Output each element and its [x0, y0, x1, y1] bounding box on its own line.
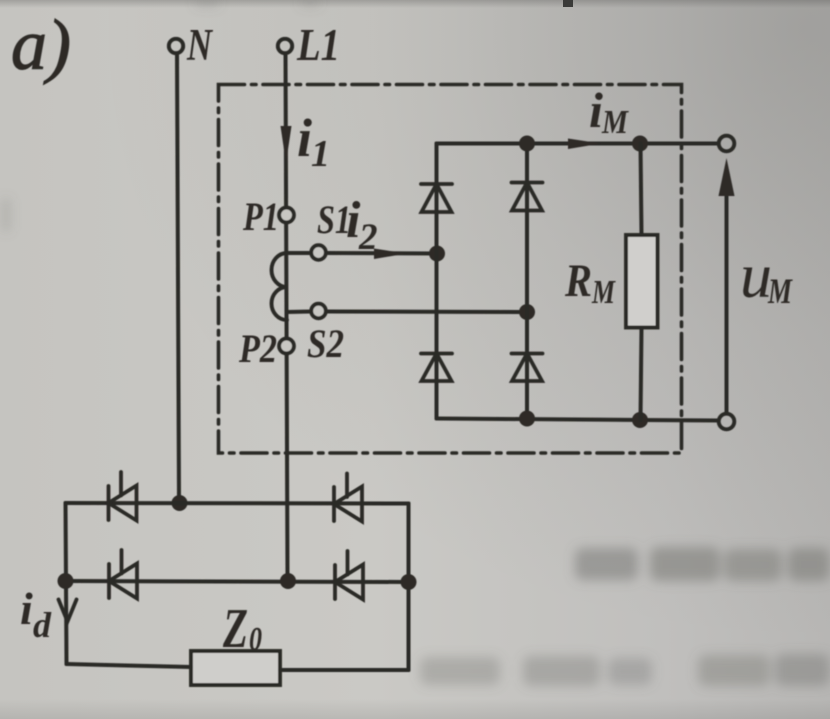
bridge left branch wire — [435, 144, 439, 419]
dash-dot instrument boundary box — [219, 85, 682, 454]
wire bottom right — [280, 668, 409, 672]
label id — [20, 583, 52, 645]
svg-text:P1: P1 — [242, 194, 279, 239]
svg-text:Z: Z — [222, 598, 248, 660]
thyristor T4 (lower right) — [335, 551, 363, 600]
label i2 — [346, 192, 378, 258]
diode D2 (upper right, bridge) — [512, 183, 543, 211]
arrow i1 — [281, 126, 292, 163]
arrow i2 — [374, 249, 407, 260]
arrow uM — [725, 193, 729, 413]
svg-text:a): a) — [11, 5, 71, 85]
svg-text:i: i — [589, 82, 603, 138]
label RM — [564, 255, 616, 311]
thyristor bridge top row wire — [66, 501, 409, 506]
node lower row L1 — [280, 573, 296, 589]
resistor RM — [626, 235, 658, 328]
svg-text:M: M — [767, 271, 793, 311]
transformer primary terminal P2 — [279, 339, 294, 354]
diode D4 (lower right, bridge) — [512, 354, 543, 382]
svg-text:L1: L1 — [296, 20, 340, 70]
dark fleck top edge — [563, 0, 573, 7]
terminal L1 — [278, 39, 292, 53]
node bridge bottom left — [519, 411, 535, 427]
diode D1 (upper left, bridge) — [421, 184, 452, 212]
secondary terminal S2 — [287, 304, 326, 319]
thyristor bridge bottom row wire — [66, 581, 409, 582]
svg-text:i: i — [20, 583, 33, 634]
secondary terminal S1 — [287, 245, 326, 260]
label Z0 — [222, 598, 262, 660]
node bridge top right — [632, 136, 648, 152]
label a) — [11, 5, 71, 85]
arrow iM — [568, 139, 601, 150]
wire S1 to bridge — [326, 251, 437, 256]
thyristor T3 (lower left) — [109, 550, 137, 599]
transformer secondary winding (two loops) — [272, 253, 288, 320]
diode D3 (lower left, bridge) — [421, 354, 452, 382]
svg-text:0: 0 — [249, 621, 262, 658]
svg-text:M: M — [601, 104, 629, 141]
thyristor bridge right vertical wire — [407, 504, 411, 671]
wire bottom left — [67, 664, 192, 667]
thyristor T2 (upper right) — [334, 474, 362, 522]
bridge top wire — [437, 142, 719, 146]
svg-text:M: M — [591, 274, 616, 311]
node N on thyristor bridge — [172, 495, 188, 511]
wire RM top — [641, 144, 642, 236]
node lower row right — [401, 574, 417, 590]
wire N vertical — [177, 54, 179, 503]
wire RM bottom — [641, 328, 642, 421]
arrow id (open head) — [59, 600, 77, 622]
svg-text:1: 1 — [311, 133, 330, 175]
label i1 — [297, 108, 330, 175]
node bridge bottom right — [632, 412, 648, 428]
output terminal top — [719, 136, 735, 152]
wire L1 vertical — [286, 54, 288, 581]
output terminal bottom — [719, 414, 735, 430]
thyristor T1 (upper left) — [109, 472, 137, 521]
node S1/bridge left — [429, 246, 445, 262]
label iM — [589, 82, 630, 141]
svg-text:P2: P2 — [238, 326, 277, 371]
svg-text:N: N — [186, 20, 213, 70]
node S2/bridge right — [519, 304, 535, 320]
svg-text:d: d — [33, 605, 52, 645]
bridge right branch wire — [525, 144, 529, 419]
svg-text:i: i — [297, 108, 312, 168]
load impedance Z0 — [191, 651, 280, 685]
svg-text:2: 2 — [358, 217, 378, 258]
svg-text:S2: S2 — [307, 321, 344, 366]
node bridge top left — [519, 136, 535, 152]
wire S2 to bridge — [326, 310, 527, 315]
svg-text:R: R — [564, 255, 592, 307]
transformer primary terminal P1 — [279, 208, 294, 223]
thyristor bridge left vertical wire — [66, 503, 67, 664]
label uM — [740, 240, 793, 311]
node lower row left — [58, 573, 74, 589]
bridge bottom wire — [437, 419, 719, 421]
terminal N — [169, 39, 183, 53]
